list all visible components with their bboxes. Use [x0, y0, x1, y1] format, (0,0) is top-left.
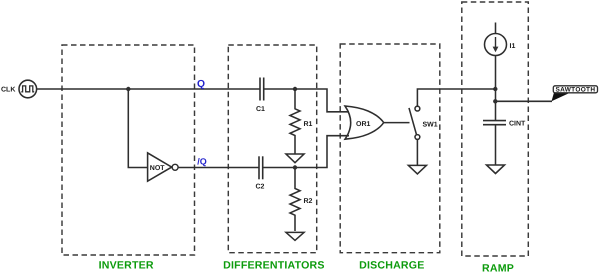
wire I1 to CINT [495, 56, 497, 121]
wire CLK to C1 [37, 88, 260, 90]
current source I1 [485, 23, 516, 56]
ground R2 [286, 232, 304, 240]
svg-text:RAMP: RAMP [482, 262, 514, 272]
resistor R2 [290, 168, 313, 232]
svg-text:R1: R1 [304, 121, 313, 128]
ground R1 [286, 154, 304, 163]
wire OR1 output [384, 122, 410, 124]
svg-text:INVERTER: INVERTER [99, 260, 154, 272]
net flag SAWTOOTH [552, 86, 598, 102]
svg-text:R2: R2 [304, 198, 313, 205]
capacitor CINT [483, 120, 526, 127]
wire SW1 bottom to ground [416, 139, 418, 165]
svg-text:C2: C2 [256, 184, 265, 191]
svg-text:CINT: CINT [509, 120, 526, 127]
svg-text:SAWTOOTH: SAWTOOTH [555, 86, 595, 94]
capacitor C1 [256, 78, 265, 114]
svg-text:C1: C1 [256, 106, 265, 113]
wire SW1 top to ramp node [417, 89, 495, 106]
node sawtooth junction [493, 99, 497, 103]
dashed box RAMP [462, 2, 529, 256]
clock source CLK [1, 80, 37, 98]
svg-text:/Q: /Q [197, 157, 207, 167]
svg-text:SW1: SW1 [423, 122, 438, 129]
node ramp junction [493, 87, 497, 91]
svg-text:DISCHARGE: DISCHARGE [359, 260, 424, 272]
node C2-R2 junction [293, 165, 297, 169]
label DIFFERENTIATORS [223, 260, 324, 272]
net label /Q [197, 157, 207, 167]
wire C2 to OR1 bottom input [263, 136, 349, 168]
capacitor C2 [256, 156, 265, 190]
ground SW1 [408, 165, 426, 174]
svg-text:OR1: OR1 [356, 121, 371, 128]
switch SW1 [409, 106, 438, 139]
net label Q [197, 79, 205, 90]
svg-text:CLK: CLK [1, 87, 15, 94]
ground CINT [487, 165, 505, 174]
label DISCHARGE [359, 260, 424, 272]
resistor R1 [290, 89, 313, 154]
label INVERTER [99, 260, 154, 272]
wire inverter input drop [128, 89, 147, 168]
wire C1 to OR1 top input [264, 89, 349, 112]
label RAMP [482, 262, 514, 272]
inverter U1 NOT [148, 153, 179, 181]
node Q junction [126, 87, 130, 91]
dashed box DISCHARGE [340, 44, 440, 253]
node C1-R1 junction [293, 87, 297, 91]
svg-text:NOT: NOT [150, 165, 166, 172]
svg-text:I1: I1 [510, 43, 516, 50]
svg-text:DIFFERENTIATORS: DIFFERENTIATORS [223, 260, 324, 272]
wire sawtooth branch [495, 100, 552, 102]
dashed box INVERTER [62, 45, 195, 255]
or-gate OR1 [345, 106, 384, 139]
wire NOT output to C2 [178, 167, 258, 169]
svg-text:Q: Q [197, 79, 205, 90]
dashed box DIFFERENTIATORS [228, 45, 316, 253]
wire CINT to ground [495, 125, 497, 165]
